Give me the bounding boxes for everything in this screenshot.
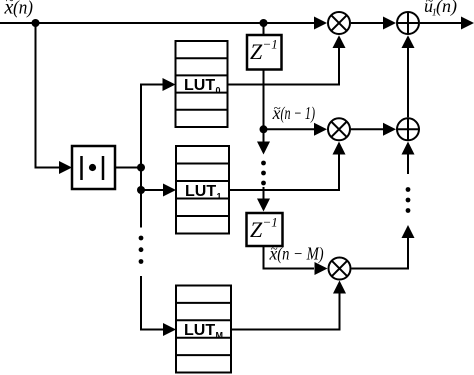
LUT1 block: [176, 146, 229, 234]
wire: LUT0 output to multiplier1: [228, 48, 340, 85]
label x~(n-1): [272, 100, 316, 123]
arrowhead up into multiplier3 bottom: [333, 281, 346, 294]
multiplier M1: [328, 12, 350, 34]
svg-text:LUT: LUT: [184, 77, 215, 94]
ellipsis dots on adder chain: [406, 187, 411, 192]
node: x(n-1) tap junction: [260, 125, 268, 133]
node: input tap junction: [32, 19, 40, 27]
LUTM block: [176, 286, 231, 373]
arrowhead into abs block: [59, 161, 72, 174]
wire: multiplier3 output up to adder chain: [352, 238, 409, 269]
svg-text:(n − 1): (n − 1): [281, 103, 316, 123]
svg-text:Z: Z: [250, 39, 263, 64]
svg-text:−1: −1: [263, 37, 278, 52]
svg-text:0: 0: [216, 86, 221, 96]
wire: top bus to delay1: [263, 23, 265, 35]
label x~(n-M): [269, 241, 324, 264]
arrowhead output right edge: [461, 17, 474, 30]
delay block Z^-1 second: [247, 213, 283, 246]
wire: abs output to LUT bus: [115, 167, 141, 169]
arrowhead up into adder1 bottom: [402, 35, 415, 48]
svg-text:Z: Z: [250, 217, 263, 242]
wire: top x(n) bus: [0, 22, 315, 24]
svg-text:(n − M): (n − M): [277, 243, 323, 263]
wire: delay1 output down: [263, 70, 265, 130]
wire: adder2 lower input stem: [407, 153, 409, 174]
wire: x(n-1) tap to multiplier2: [264, 128, 316, 130]
node: delay1 tap junction: [260, 19, 268, 27]
output label u~1(n): [424, 0, 457, 19]
svg-text:−1: −1: [263, 215, 278, 230]
arrowhead up into adder2 bottom: [402, 142, 415, 155]
arrowhead up into multiplier1 bottom: [333, 35, 346, 48]
arrowhead into adder1: [383, 17, 396, 30]
LUT0 block: [176, 41, 228, 127]
wire: LUT1 output to multiplier2: [229, 155, 339, 191]
svg-text:LUT: LUT: [185, 183, 216, 200]
wire: LUT index bus vertical upper: [141, 85, 164, 228]
node: abs output junction: [137, 164, 145, 172]
multiplier M2: [328, 118, 350, 140]
wire: input tap down to abs block: [36, 23, 61, 168]
adder S1: [397, 12, 419, 34]
abs block |.|: [72, 146, 115, 189]
svg-text:M: M: [216, 331, 224, 341]
adder S2: [397, 118, 419, 140]
node: LUT1 feed junction: [137, 186, 145, 194]
arrowhead into multiplier3 left: [315, 262, 328, 275]
wire: adder2 output up to adder1: [407, 48, 409, 117]
input label x~(n): [4, 0, 34, 19]
wire: LUT1 feed: [141, 189, 164, 191]
svg-text:LUT: LUT: [184, 322, 215, 339]
arrowhead down below x(n-1) tap: [257, 142, 270, 155]
arrowhead into adder2: [383, 123, 396, 136]
wire: stem into delay2: [263, 187, 265, 200]
arrowhead up from multiplier3 toward adder chain: [402, 225, 415, 238]
svg-text:(n): (n): [436, 0, 457, 17]
arrowhead into LUT1: [163, 184, 176, 197]
svg-text:~: ~: [274, 100, 281, 115]
svg-text:(n): (n): [13, 0, 33, 19]
wire: adder1 output: [420, 22, 462, 24]
ellipsis dots on LUT index bus: [139, 236, 144, 241]
wire: multiplier2 to adder2: [351, 128, 384, 130]
arrowhead down into delay2: [257, 199, 270, 212]
delay block Z^-1 first: [247, 35, 282, 70]
wire: LUTM output to multiplier3: [231, 294, 340, 330]
ellipsis dots on delay tap line: [261, 161, 266, 166]
arrowhead into LUT0: [163, 78, 176, 91]
svg-text:1: 1: [217, 192, 222, 202]
wire: multiplier1 to adder1: [351, 22, 384, 24]
wire: LUT index bus vertical lower to LUTM: [141, 276, 164, 330]
arrowhead into multiplier1: [314, 17, 327, 30]
arrowhead into LUTM: [163, 323, 176, 336]
arrowhead up into multiplier2 bottom: [333, 142, 346, 155]
wire: delay2 output to multiplier3: [264, 246, 315, 269]
multiplier M3: [329, 258, 351, 280]
wire: tap continue down (arrow stem): [263, 129, 265, 143]
arrowhead into multiplier2 left: [314, 123, 327, 136]
